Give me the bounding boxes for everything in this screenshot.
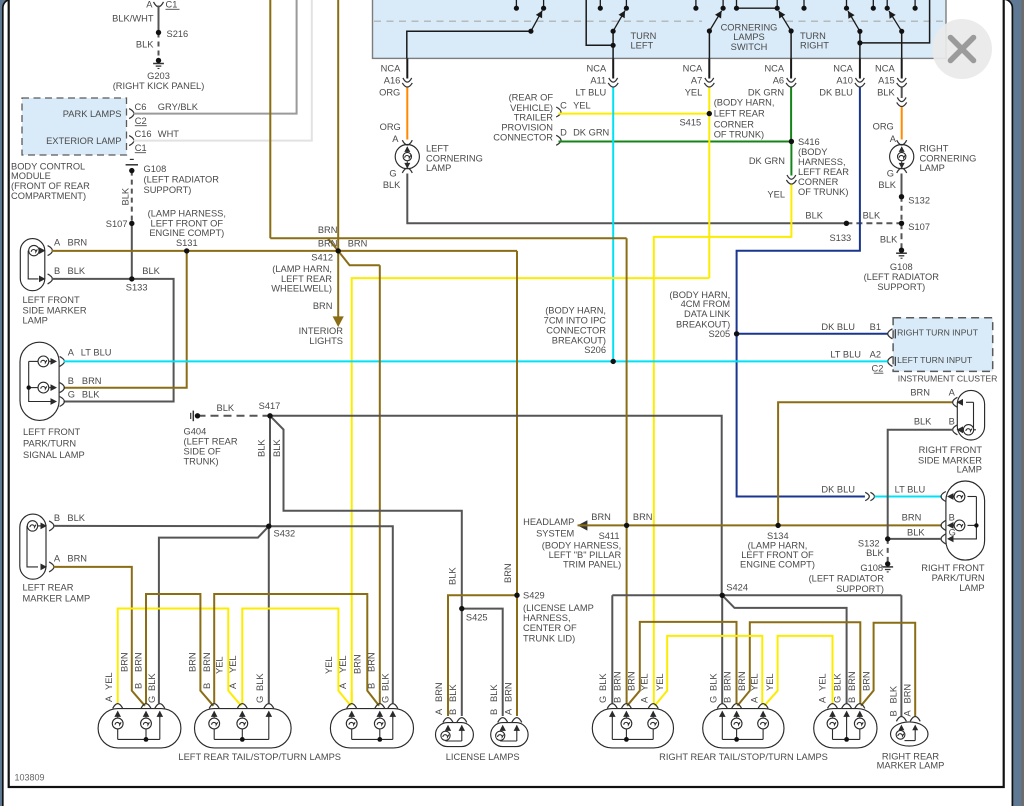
wire YEL bus right a bbox=[655, 636, 763, 706]
svg-text:(FRONT OF REAR: (FRONT OF REAR bbox=[11, 181, 90, 191]
svg-text:ENGINE COMPT): ENGINE COMPT) bbox=[740, 560, 815, 570]
svg-text:WHEELWELL): WHEELWELL) bbox=[271, 284, 332, 294]
wire BRN headlamp run bbox=[578, 524, 942, 526]
svg-text:LAMP: LAMP bbox=[920, 163, 945, 173]
svg-text:EXTERIOR LAMP: EXTERIOR LAMP bbox=[46, 136, 121, 146]
svg-text:CORNERING: CORNERING bbox=[426, 153, 483, 163]
right cornering lamp terminal G bbox=[897, 168, 907, 173]
svg-text:BLK: BLK bbox=[832, 673, 842, 691]
wire BRN marker A to L1-B bbox=[53, 567, 145, 706]
svg-text:LEFT REAR: LEFT REAR bbox=[23, 583, 74, 593]
license lamp 2 bbox=[491, 723, 528, 747]
svg-text:BRN: BRN bbox=[187, 652, 197, 672]
svg-text:BRN: BRN bbox=[591, 512, 611, 522]
switch arm S1 (park/A16) bbox=[531, 11, 542, 32]
wire arm1 to A16 bbox=[407, 31, 531, 58]
svg-text:YEL: YEL bbox=[214, 656, 224, 674]
svg-text:BRN: BRN bbox=[133, 652, 143, 672]
svg-text:COMPARTMENT): COMPARTMENT) bbox=[11, 191, 86, 201]
trailer pin D bbox=[556, 135, 561, 145]
svg-text:B: B bbox=[847, 697, 857, 703]
svg-text:A: A bbox=[434, 708, 444, 715]
svg-text:G108: G108 bbox=[144, 164, 167, 174]
svg-text:LEFT REAR TAIL/STOP/TURN LAMPS: LEFT REAR TAIL/STOP/TURN LAMPS bbox=[178, 752, 341, 762]
svg-text:A: A bbox=[902, 710, 912, 717]
svg-text:LAMP: LAMP bbox=[959, 583, 984, 593]
svg-text:B: B bbox=[889, 710, 899, 716]
svg-text:BRN: BRN bbox=[910, 388, 930, 398]
svg-text:A: A bbox=[818, 696, 828, 703]
connector NCA A16 ORG bbox=[406, 58, 408, 78]
svg-text:BLK: BLK bbox=[708, 673, 718, 691]
svg-text:BRN: BRN bbox=[504, 682, 514, 702]
svg-text:BREAKOUT): BREAKOUT) bbox=[676, 320, 730, 330]
switch arm A15 bbox=[889, 11, 902, 31]
svg-text:BLK/WHT: BLK/WHT bbox=[112, 14, 154, 24]
wire YEL bus a bbox=[118, 609, 242, 706]
svg-text:BLK: BLK bbox=[598, 673, 608, 691]
contact bar bbox=[737, 7, 778, 9]
svg-text:G108: G108 bbox=[860, 563, 883, 573]
trailer pin C bbox=[556, 107, 561, 117]
svg-text:A: A bbox=[949, 388, 956, 398]
svg-text:DK BLU: DK BLU bbox=[819, 88, 853, 98]
wire BLK S425 down to license lamp 1 B bbox=[461, 609, 463, 716]
svg-text:BLK: BLK bbox=[489, 684, 499, 702]
svg-text:(LEFT REAR: (LEFT REAR bbox=[184, 436, 238, 446]
svg-text:S205: S205 bbox=[708, 329, 730, 339]
svg-text:S133: S133 bbox=[126, 283, 148, 293]
svg-text:A6: A6 bbox=[773, 75, 784, 85]
cluster pin B1 bbox=[888, 329, 893, 339]
svg-text:NCA: NCA bbox=[764, 64, 784, 74]
switch assembly box bbox=[373, 0, 947, 58]
wire BLK S425 to license lamp 2 B bbox=[462, 609, 503, 716]
svg-text:S206: S206 bbox=[584, 345, 606, 355]
wire YEL A7 down bbox=[708, 88, 710, 279]
switch arm turn-right bbox=[848, 11, 860, 31]
svg-text:LAMP: LAMP bbox=[426, 163, 451, 173]
svg-text:YEL: YEL bbox=[765, 673, 775, 691]
svg-text:HEADLAMP: HEADLAMP bbox=[523, 517, 574, 527]
left rear tail lamp 1 bbox=[98, 709, 181, 748]
svg-text:B: B bbox=[202, 683, 212, 689]
svg-text:A: A bbox=[504, 708, 514, 715]
svg-text:YEL: YEL bbox=[655, 673, 665, 691]
svg-text:INSTRUMENT CLUSTER: INSTRUMENT CLUSTER bbox=[898, 374, 998, 384]
wire arm6 to A15 bbox=[901, 31, 903, 58]
svg-text:A7: A7 bbox=[691, 75, 702, 85]
wire BRN side marker A bus bbox=[52, 250, 518, 252]
svg-text:RIGHT: RIGHT bbox=[920, 144, 949, 154]
wire arm3 to A7 bbox=[708, 31, 710, 58]
svg-text:CENTER OF: CENTER OF bbox=[523, 623, 577, 633]
wire YEL bus right b bbox=[764, 636, 832, 706]
left front park/turn signal lamp bbox=[20, 342, 59, 420]
svg-text:B: B bbox=[723, 697, 733, 703]
svg-text:G: G bbox=[832, 696, 842, 703]
svg-text:A: A bbox=[104, 695, 114, 702]
svg-text:LAMPS: LAMPS bbox=[733, 32, 765, 42]
svg-text:G: G bbox=[147, 696, 157, 703]
wire BRN top horizontal bbox=[270, 237, 626, 239]
svg-text:A: A bbox=[54, 237, 61, 247]
wire LT BLU to right front park/turn A bbox=[875, 496, 942, 498]
svg-text:BRN: BRN bbox=[723, 671, 733, 691]
right front park/turn lamp bbox=[946, 481, 985, 560]
svg-text:S216: S216 bbox=[167, 29, 189, 39]
wire BRN S429 to license lamp 1 A bbox=[448, 595, 517, 716]
wire BRN right marker A jog to R3-B bbox=[861, 623, 915, 717]
wire BLK S417 down to S432 bbox=[269, 416, 271, 527]
svg-text:SIGNAL LAMP: SIGNAL LAMP bbox=[23, 450, 85, 460]
svg-text:CORNER: CORNER bbox=[714, 119, 755, 129]
svg-text:NCA: NCA bbox=[875, 64, 895, 74]
wire arm2 to A11 bbox=[612, 31, 614, 58]
right front side marker lamp bbox=[957, 390, 984, 440]
wire DK GRN A6 down to S416 bbox=[790, 88, 792, 142]
connector NCA A11 LT BLU bbox=[612, 58, 614, 78]
svg-text:SIDE MARKER: SIDE MARKER bbox=[23, 305, 87, 315]
svg-text:LEFT TURN INPUT: LEFT TURN INPUT bbox=[897, 355, 973, 365]
svg-text:B: B bbox=[54, 513, 60, 523]
switch arm cornering right bbox=[779, 11, 791, 31]
svg-text:BREAKOUT): BREAKOUT) bbox=[552, 335, 606, 345]
svg-text:LT BLU: LT BLU bbox=[895, 484, 926, 494]
svg-text:BLK: BLK bbox=[448, 684, 458, 702]
wire BRN S131 down to park/turn B bbox=[64, 251, 187, 388]
svg-text:LAMP: LAMP bbox=[23, 316, 48, 326]
svg-text:ORG: ORG bbox=[873, 122, 894, 132]
svg-text:RIGHT TURN INPUT: RIGHT TURN INPUT bbox=[897, 327, 979, 337]
svg-text:B: B bbox=[133, 683, 143, 689]
svg-text:S107: S107 bbox=[908, 222, 930, 232]
svg-text:BLK: BLK bbox=[866, 548, 884, 558]
svg-text:A: A bbox=[228, 682, 238, 689]
svg-text:YEL: YEL bbox=[573, 101, 591, 111]
svg-text:4CM FROM: 4CM FROM bbox=[681, 299, 731, 309]
wire BRN down to S429/license bbox=[516, 251, 518, 595]
cluster pin A2 C2 bbox=[888, 356, 893, 366]
wire BRN S429 down to license lamp 2 A bbox=[516, 595, 518, 716]
svg-text:S132: S132 bbox=[908, 196, 930, 206]
wire DK BLU S205 down to front lamp run bbox=[737, 334, 865, 497]
body control module box bbox=[22, 98, 127, 155]
wire BRN bus right b bbox=[737, 622, 860, 706]
svg-text:PARK/TURN: PARK/TURN bbox=[932, 573, 985, 583]
svg-text:(BODY HARN,: (BODY HARN, bbox=[714, 98, 775, 108]
svg-text:B: B bbox=[448, 709, 458, 715]
wire BRN L3-B tail bbox=[379, 691, 381, 704]
wire YEL L3 feed diagonal bbox=[351, 691, 353, 704]
svg-text:NCA: NCA bbox=[683, 64, 703, 74]
svg-text:(REAR OF: (REAR OF bbox=[509, 93, 554, 103]
svg-text:BRN: BRN bbox=[318, 238, 338, 248]
svg-text:BRN: BRN bbox=[318, 225, 338, 235]
wire DK GRN trailer D to S416 bbox=[559, 141, 792, 143]
svg-text:A11: A11 bbox=[590, 75, 606, 85]
left rear tail lamp 2 bbox=[195, 709, 292, 748]
svg-text:BLK: BLK bbox=[256, 439, 266, 457]
svg-text:G: G bbox=[68, 390, 75, 400]
svg-text:A16: A16 bbox=[384, 75, 401, 85]
svg-text:NCA: NCA bbox=[587, 64, 607, 74]
wire BLK dashed S132 to G108 bbox=[887, 539, 889, 563]
BCM pin C6 C2 bbox=[129, 109, 134, 119]
instrument cluster box bbox=[893, 318, 993, 372]
svg-text:PARK/TURN: PARK/TURN bbox=[23, 439, 76, 449]
svg-text:DK GRN: DK GRN bbox=[749, 156, 785, 166]
wire BLK S424 diagonal branch to R3-G bbox=[722, 595, 846, 703]
svg-text:BLK: BLK bbox=[383, 180, 401, 190]
svg-text:DK GRN: DK GRN bbox=[748, 88, 784, 98]
svg-text:LEFT FRONT OF: LEFT FRONT OF bbox=[151, 218, 224, 228]
svg-text:BRN: BRN bbox=[627, 671, 637, 691]
wire ORG to right cornering lamp bbox=[901, 107, 903, 140]
wire BLK S133 down to park/turn G bbox=[64, 279, 174, 402]
svg-text:C1: C1 bbox=[166, 0, 178, 10]
svg-text:YEL: YEL bbox=[338, 655, 348, 673]
svg-text:C2: C2 bbox=[135, 116, 147, 126]
ground G203 bbox=[153, 63, 164, 65]
svg-text:A: A bbox=[890, 134, 897, 144]
ground G108 bottom bbox=[882, 566, 893, 568]
svg-text:LICENSE LAMPS: LICENSE LAMPS bbox=[446, 752, 520, 762]
svg-text:LEFT "B" PILLAR: LEFT "B" PILLAR bbox=[549, 550, 622, 560]
svg-text:CONNECTOR: CONNECTOR bbox=[546, 325, 606, 335]
svg-text:CORNERING: CORNERING bbox=[721, 22, 778, 32]
svg-text:S416: S416 bbox=[798, 137, 820, 147]
left rear tail lamp 3 bbox=[330, 709, 413, 748]
wire DK GRN S416 down to connector bbox=[790, 142, 792, 176]
svg-text:BRN: BRN bbox=[82, 376, 102, 386]
wire YEL bus b bbox=[242, 609, 350, 706]
svg-text:LEFT FRONT: LEFT FRONT bbox=[23, 295, 80, 305]
svg-text:YEL: YEL bbox=[767, 189, 785, 199]
wire BLK S432 left branch to L1-G bbox=[159, 526, 269, 703]
svg-text:G203: G203 bbox=[147, 71, 170, 81]
svg-text:D: D bbox=[560, 128, 567, 138]
svg-text:BRN: BRN bbox=[861, 671, 871, 691]
BCM pin C16 C1 bbox=[129, 136, 134, 146]
svg-text:G: G bbox=[949, 527, 956, 537]
svg-text:BLK: BLK bbox=[142, 266, 160, 276]
wire DK BLU A10 down-left-down to S205 bbox=[737, 88, 860, 334]
right rear marker lamp bbox=[891, 722, 929, 746]
wire BLK S432 down to L2-G bbox=[268, 526, 270, 703]
svg-text:(BODY: (BODY bbox=[798, 147, 827, 157]
svg-text:S131: S131 bbox=[176, 238, 198, 248]
svg-text:C: C bbox=[560, 101, 567, 111]
wire BLK S107 to S133 bbox=[131, 223, 133, 279]
svg-text:LEFT REAR: LEFT REAR bbox=[281, 274, 332, 284]
close button bbox=[932, 19, 992, 79]
svg-text:B: B bbox=[367, 683, 377, 689]
switch arm turn-left bbox=[613, 11, 625, 32]
svg-text:YEL: YEL bbox=[818, 673, 828, 691]
svg-text:NCA: NCA bbox=[833, 64, 853, 74]
svg-text:LEFT FRONT: LEFT FRONT bbox=[23, 427, 80, 437]
right rear tail lamp 3 bbox=[814, 709, 877, 748]
wire BRN bus a bbox=[146, 594, 213, 706]
svg-text:DK BLU: DK BLU bbox=[821, 484, 855, 494]
wire BRN bus right a bbox=[627, 622, 736, 706]
svg-text:BLK: BLK bbox=[120, 187, 130, 205]
svg-text:BRN: BRN bbox=[902, 513, 922, 523]
wire BLK dashed G108 to S107 bbox=[131, 171, 133, 224]
svg-text:ORG: ORG bbox=[379, 88, 400, 98]
svg-text:S133: S133 bbox=[829, 233, 851, 243]
svg-text:SUPPORT): SUPPORT) bbox=[836, 584, 884, 594]
svg-text:G: G bbox=[389, 169, 396, 179]
svg-text:BLK: BLK bbox=[880, 235, 898, 245]
wire BLK dashed S132-S107 bbox=[901, 197, 903, 224]
svg-text:S417: S417 bbox=[259, 401, 281, 411]
svg-text:BRN: BRN bbox=[68, 237, 88, 247]
svg-text:TRUNK LID): TRUNK LID) bbox=[523, 633, 575, 643]
svg-text:SIDE OF: SIDE OF bbox=[184, 447, 222, 457]
svg-text:BLK: BLK bbox=[68, 266, 86, 276]
svg-text:(LEFT RADIATOR: (LEFT RADIATOR bbox=[864, 272, 940, 282]
svg-text:BLK: BLK bbox=[447, 567, 457, 585]
svg-text:INTERIOR: INTERIOR bbox=[299, 326, 344, 336]
svg-text:C16: C16 bbox=[135, 129, 152, 139]
svg-text:BRN: BRN bbox=[503, 563, 513, 583]
svg-text:(LAMP HARNESS,: (LAMP HARNESS, bbox=[148, 208, 226, 218]
svg-text:BRN: BRN bbox=[348, 238, 368, 248]
svg-text:DATA LINK: DATA LINK bbox=[684, 309, 731, 319]
svg-text:OF TRUNK): OF TRUNK) bbox=[714, 129, 764, 139]
svg-text:G404: G404 bbox=[184, 426, 207, 436]
svg-text:LT BLU: LT BLU bbox=[81, 348, 112, 358]
svg-text:RIGHT FRONT: RIGHT FRONT bbox=[919, 445, 983, 455]
svg-text:BLK: BLK bbox=[381, 673, 391, 691]
ground G404 bbox=[190, 413, 192, 419]
svg-text:S107: S107 bbox=[106, 219, 128, 229]
svg-text:ORG: ORG bbox=[380, 122, 401, 132]
left front side marker lamp bbox=[20, 239, 45, 291]
wire BLK right end down to marker B bbox=[900, 595, 902, 717]
connector NCA A10 DK BLU bbox=[859, 58, 861, 78]
svg-text:B: B bbox=[613, 697, 623, 703]
svg-text:YEL: YEL bbox=[324, 656, 334, 674]
svg-text:G: G bbox=[887, 169, 894, 179]
wire BRN S134 up to right front side marker A bbox=[778, 402, 952, 525]
svg-text:A: A bbox=[54, 554, 61, 564]
svg-text:BLK: BLK bbox=[147, 673, 157, 691]
svg-text:B: B bbox=[68, 376, 74, 386]
wire GRY/BLK bbox=[134, 0, 297, 114]
svg-text:BLK: BLK bbox=[805, 210, 823, 220]
svg-text:LEFT REAR: LEFT REAR bbox=[714, 109, 765, 119]
wire LT BLU A11 down to S206 bbox=[612, 88, 614, 362]
wire BLK dashed S133-S107 bbox=[846, 222, 901, 224]
svg-text:A2: A2 bbox=[870, 349, 881, 359]
svg-text:BRN: BRN bbox=[67, 554, 87, 564]
svg-text:BLK: BLK bbox=[878, 180, 896, 190]
switch fixed contacts bbox=[515, 0, 517, 8]
svg-text:DK BLU: DK BLU bbox=[821, 322, 855, 332]
wire DK BLU S205 to instrument cluster B1 bbox=[737, 333, 888, 335]
svg-text:LAMP: LAMP bbox=[957, 465, 982, 475]
svg-text:YEL: YEL bbox=[104, 672, 114, 690]
svg-text:BRN: BRN bbox=[902, 684, 912, 704]
svg-text:B: B bbox=[949, 513, 955, 523]
left rear marker lamp bbox=[20, 514, 46, 579]
svg-text:BLK: BLK bbox=[255, 673, 265, 691]
left cornering lamp terminal A bbox=[402, 140, 412, 145]
wire BLK side marker B to S133 bbox=[52, 278, 132, 280]
svg-text:A15: A15 bbox=[878, 75, 895, 85]
svg-text:SWITCH: SWITCH bbox=[731, 42, 768, 52]
svg-text:BLK: BLK bbox=[863, 210, 881, 220]
svg-text:BLK: BLK bbox=[67, 513, 85, 523]
svg-text:SUPPORT): SUPPORT) bbox=[144, 185, 192, 195]
svg-text:RIGHT FRONT: RIGHT FRONT bbox=[921, 563, 985, 573]
inline connector DK BLU / LT BLU bbox=[865, 492, 869, 500]
left cornering lamp bbox=[395, 145, 419, 169]
dashed internal line bbox=[374, 20, 702, 22]
svg-text:TRIM PANEL): TRIM PANEL) bbox=[563, 560, 621, 570]
wire arm4 to A6 bbox=[790, 31, 792, 58]
svg-text:G: G bbox=[255, 696, 265, 703]
svg-text:B: B bbox=[489, 709, 499, 715]
svg-text:BRN: BRN bbox=[633, 512, 653, 522]
wire BRN S412 branch to tail lamps bbox=[338, 251, 380, 265]
svg-text:S424: S424 bbox=[726, 583, 748, 593]
wire BLK left end down to R1-G bbox=[611, 595, 613, 703]
svg-text:BLK: BLK bbox=[272, 439, 282, 457]
wire BLK S424 horizontal to right marker B bbox=[612, 594, 901, 596]
wire YEL S416 branch down-left-down bbox=[654, 185, 792, 704]
svg-text:PARK LAMPS: PARK LAMPS bbox=[63, 109, 122, 119]
svg-text:ENGINE COMPT): ENGINE COMPT) bbox=[149, 228, 224, 238]
svg-text:C2: C2 bbox=[872, 364, 884, 374]
svg-text:BRN: BRN bbox=[434, 682, 444, 702]
svg-text:BRN: BRN bbox=[352, 654, 362, 674]
svg-text:BODY CONTROL: BODY CONTROL bbox=[11, 161, 85, 171]
svg-text:BLK: BLK bbox=[889, 685, 899, 703]
svg-text:S429: S429 bbox=[523, 591, 545, 601]
svg-text:MODULE: MODULE bbox=[11, 171, 51, 181]
svg-text:G: G bbox=[598, 696, 608, 703]
svg-text:BLK: BLK bbox=[136, 40, 154, 50]
wire WHT bbox=[134, 0, 312, 141]
wire arm5 to A10 bbox=[859, 31, 861, 58]
svg-text:LIGHTS: LIGHTS bbox=[309, 336, 343, 346]
svg-text:HARNESS,: HARNESS, bbox=[798, 157, 846, 167]
svg-text:LT BLU: LT BLU bbox=[576, 88, 607, 98]
right cornering lamp bbox=[890, 145, 914, 169]
connector NCA A6 DK GRN bbox=[790, 58, 792, 78]
wire BLK right cornering G to S132 bbox=[901, 174, 903, 197]
svg-text:CONNECTOR: CONNECTOR bbox=[493, 133, 553, 143]
wire LT BLU main horizontal bbox=[64, 360, 888, 362]
svg-text:(LAMP HARN,: (LAMP HARN, bbox=[272, 264, 332, 274]
svg-text:B: B bbox=[949, 416, 955, 426]
svg-text:(LEFT RADIATOR: (LEFT RADIATOR bbox=[809, 574, 885, 584]
wire BRN bus b bbox=[214, 594, 379, 706]
wire BRN S411 vertical (from top run to R1) bbox=[626, 238, 628, 703]
svg-text:LEFT: LEFT bbox=[426, 144, 449, 154]
svg-text:RIGHT REAR TAIL/STOP/TURN LAMP: RIGHT REAR TAIL/STOP/TURN LAMPS bbox=[659, 752, 828, 762]
svg-text:YEL: YEL bbox=[639, 673, 649, 691]
svg-text:YEL: YEL bbox=[685, 88, 703, 98]
svg-text:OF TRUNK): OF TRUNK) bbox=[798, 187, 848, 197]
connector C1 top bbox=[154, 2, 164, 7]
svg-text:(LEFT RADIATOR: (LEFT RADIATOR bbox=[144, 175, 220, 185]
svg-text:7CM INTO IPC: 7CM INTO IPC bbox=[544, 316, 607, 326]
